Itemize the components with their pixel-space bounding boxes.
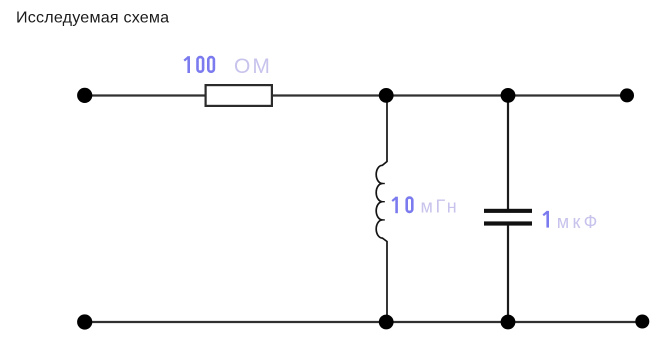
svg-text:мкФ: мкФ (557, 212, 601, 232)
svg-text:ОМ: ОМ (234, 55, 272, 78)
svg-text:мГн: мГн (421, 197, 460, 217)
svg-text:Исследуемая схема: Исследуемая схема (16, 9, 169, 27)
